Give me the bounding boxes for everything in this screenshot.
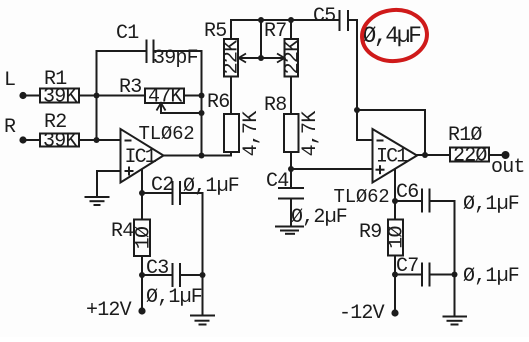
wire R7 bottom to R8 top [290, 77, 292, 115]
svg-text:R3: R3 [119, 76, 141, 99]
wire R input to R2 [23, 139, 40, 141]
wire right decoupling ground vertical [454, 201, 456, 316]
svg-text:4,7K: 4,7K [299, 111, 322, 157]
node R3 right junction [199, 93, 205, 99]
node pot bus junction left [258, 17, 264, 23]
svg-text:Ø,4µF: Ø,4µF [363, 23, 422, 49]
wire R3 right to output net [184, 95, 202, 97]
wire inverting input op-amp2 [357, 139, 373, 141]
node C3 ground junction [200, 272, 206, 278]
arrow R3 wiper [157, 103, 166, 111]
wire C3 left [142, 274, 173, 276]
wire pot wiper horizontal [240, 57, 283, 59]
node R input terminal [19, 136, 26, 143]
svg-text:R: R [4, 116, 16, 139]
svg-text:Ø,1µF: Ø,1µF [463, 265, 519, 288]
svg-text:R6: R6 [207, 91, 229, 114]
svg-text:IC1: IC1 [376, 146, 408, 169]
svg-text:22Ø: 22Ø [453, 145, 487, 168]
svg-text:R5: R5 [204, 20, 226, 43]
wire C1 right [154, 50, 202, 52]
wire C7 right [430, 274, 455, 276]
svg-text:+12V: +12V [86, 299, 132, 322]
op-amp2 plus sign [376, 169, 385, 171]
node +12V terminal [138, 307, 145, 314]
wire R3 wiper [161, 104, 202, 113]
capacitor C3 plates [172, 263, 174, 287]
node C3 supply junction [139, 272, 145, 278]
wire C6 left [395, 200, 422, 202]
wire C5 right [348, 19, 357, 21]
wire L input to R1 [23, 95, 40, 97]
wire op-amp2 supply pin [394, 169, 396, 220]
svg-text:out: out [491, 156, 525, 179]
wire R2 to op-amp inverting input [79, 139, 121, 141]
wire C6 right [430, 200, 455, 202]
wire R4 bottom to +12V [141, 256, 143, 311]
wire op-amp1 supply pin [141, 168, 143, 220]
svg-text:TLØ62: TLØ62 [139, 123, 195, 145]
resistor R4 [134, 220, 150, 257]
capacitor C1 plates [146, 40, 148, 64]
capacitor C5 plates [339, 10, 341, 31]
svg-text:C6: C6 [396, 181, 418, 204]
svg-text:39K: 39K [43, 86, 77, 109]
wire feedback top [357, 109, 425, 111]
resistor R10 [450, 148, 489, 162]
svg-text:R7: R7 [264, 20, 286, 43]
resistor R6 [224, 114, 239, 152]
node C6 supply junction [392, 198, 398, 204]
arrow R7 wiper [277, 54, 285, 63]
svg-text:C4: C4 [266, 170, 288, 193]
resistor R8 [284, 114, 299, 152]
svg-text:Ø,2µF: Ø,2µF [291, 206, 347, 229]
resistor R1 [40, 89, 79, 103]
wire top bus [231, 19, 340, 21]
op-amp2 minus sign [377, 140, 384, 142]
red correction circle around 0,4uF [360, 7, 429, 63]
wire noninverting input row op-amp2 [291, 168, 373, 170]
svg-text:C3: C3 [146, 257, 168, 280]
resistor R2 [40, 134, 79, 147]
wire R9 bottom to -12V [394, 256, 396, 314]
wire C3 right [180, 274, 203, 276]
svg-text:1Ø: 1Ø [386, 226, 409, 249]
node C7 supply junction [392, 272, 398, 278]
op-amp1 minus sign [125, 140, 132, 142]
wire R5 bottom to R6 top [230, 77, 232, 115]
capacitor C4 plates [278, 187, 304, 189]
svg-text:R9: R9 [359, 221, 381, 244]
node op-amp2 output junction [422, 152, 428, 158]
node summing junction lower [94, 137, 100, 143]
ground C4 [275, 226, 304, 228]
svg-text:39pF: 39pF [153, 47, 198, 70]
node feedback tee [354, 107, 360, 113]
svg-text:TLØ62: TLØ62 [334, 186, 390, 208]
svg-text:Ø,1µF: Ø,1µF [463, 193, 519, 216]
svg-text:1Ø: 1Ø [133, 226, 156, 249]
wire decoupling ground vertical [202, 193, 204, 315]
wire R7 top [290, 20, 292, 39]
wire C4 top [290, 169, 292, 188]
resistor R7 [285, 39, 299, 77]
svg-text:-12V: -12V [339, 302, 385, 325]
wire C5 to inverting input [356, 20, 358, 140]
wire pot wiper bus vertical [260, 20, 262, 58]
wire feedback right [424, 110, 426, 155]
wire summing node vertical [96, 51, 98, 140]
arrow R5 wiper [239, 54, 247, 63]
resistor R9 [388, 220, 403, 256]
node pot bus junction right [288, 17, 294, 23]
wire op-amp1 output row [164, 155, 232, 157]
node wiper tee [258, 55, 264, 61]
capacitor C7 plates [421, 263, 423, 287]
node C2 supply junction [139, 190, 145, 196]
wire R1 to summing node [79, 95, 145, 97]
svg-text:Ø,1µF: Ø,1µF [146, 286, 202, 309]
resistor R3 [145, 89, 184, 104]
svg-text:R4: R4 [111, 220, 133, 243]
svg-text:39K: 39K [43, 130, 77, 153]
op-amp U1a left triangle [121, 129, 164, 183]
resistor R5 [224, 39, 238, 77]
node R8 C4 junction [288, 166, 294, 172]
wire C1 left [97, 50, 147, 52]
wire C7 left [395, 274, 422, 276]
wire C2 right [180, 192, 203, 194]
wire R10 to out [489, 154, 506, 156]
node summing junction upper [94, 93, 100, 99]
wire C4 bottom to ground [290, 199, 292, 227]
wire R6 bottom riser [230, 152, 232, 156]
ground center decoupling [190, 315, 215, 317]
wire R5 top [230, 20, 232, 39]
wire output net vertical [201, 51, 203, 156]
wire C2 left [142, 192, 173, 194]
op-amp U1b right triangle [373, 129, 418, 183]
ground op-amp1 noninverting [85, 196, 110, 198]
node L input terminal [19, 92, 26, 99]
node wiper junction [199, 110, 205, 116]
node out terminal [502, 151, 510, 159]
wire op-amp2 output to R10 [417, 154, 450, 156]
op-amp1 plus sign [125, 170, 134, 172]
svg-text:C7: C7 [396, 255, 418, 278]
node -12V terminal [391, 309, 398, 316]
node op-amp1 output junction [199, 153, 205, 159]
svg-text:R8: R8 [264, 94, 286, 117]
svg-text:22K: 22K [221, 40, 244, 74]
capacitor C2 plates [172, 181, 174, 205]
svg-text:4,7K: 4,7K [240, 111, 263, 157]
svg-text:C1: C1 [116, 22, 139, 45]
svg-text:L: L [4, 69, 15, 92]
svg-text:C5: C5 [313, 5, 335, 28]
svg-text:22K: 22K [282, 40, 305, 74]
svg-text:IC1: IC1 [125, 146, 157, 169]
ground right decoupling [443, 316, 468, 318]
capacitor C6 plates [421, 189, 423, 213]
node C7 ground junction [452, 272, 458, 278]
svg-text:47K: 47K [148, 86, 182, 109]
svg-text:C2: C2 [151, 174, 173, 197]
svg-text:Ø,1µF: Ø,1µF [183, 175, 239, 198]
wire op-amp1 noninverting input [97, 171, 121, 197]
wire R8 bottom to noninverting row [290, 152, 292, 169]
